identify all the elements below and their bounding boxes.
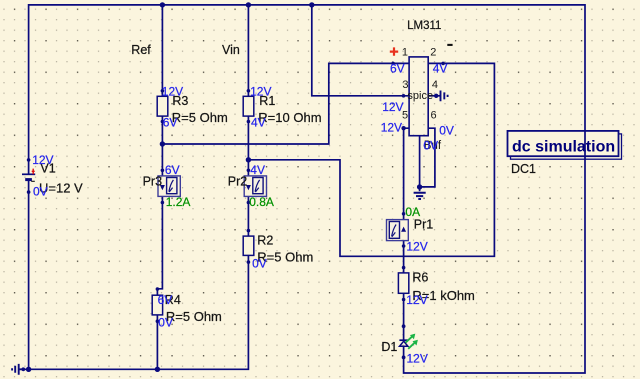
wire V1 minus down	[28, 180, 30, 369]
svg-text:0V: 0V	[33, 185, 48, 199]
svg-text:1: 1	[402, 47, 408, 59]
svg-text:R6: R6	[412, 270, 428, 284]
wire R6 to D1	[403, 293, 405, 340]
svg-text:6V: 6V	[165, 163, 180, 177]
junction node 6V wire A	[160, 141, 165, 146]
wire R1 top	[247, 5, 249, 96]
svg-text:12V: 12V	[382, 100, 403, 114]
svg-text:4V: 4V	[251, 115, 266, 129]
ground bottom left	[12, 364, 23, 375]
svg-text:1.2A: 1.2A	[166, 195, 191, 209]
svg-text:0V: 0V	[158, 316, 173, 330]
wire LM311 pin 5 down to Pr1	[404, 128, 410, 219]
terminal dots Pr2	[247, 169, 251, 173]
svg-text:D1: D1	[381, 340, 397, 354]
terminal dot pin3 wire	[402, 94, 406, 98]
svg-text:12V: 12V	[162, 85, 183, 99]
svg-text:12V: 12V	[406, 293, 427, 307]
diode D1 (LED)	[381, 334, 418, 354]
svg-text:6: 6	[431, 110, 437, 122]
wire 12V rail to LM311 pin 3	[312, 5, 409, 96]
dc simulation DC1	[508, 131, 622, 176]
spice component U1 LM311	[402, 20, 442, 136]
svg-text:6V: 6V	[158, 293, 173, 307]
svg-text:4: 4	[432, 79, 438, 91]
svg-text:0V: 0V	[439, 123, 454, 137]
svg-text:R=5 Ohm: R=5 Ohm	[166, 309, 222, 324]
plus marker at pin 1	[390, 47, 398, 55]
svg-text:Vin: Vin	[222, 43, 240, 57]
terminal dot pin2 wire	[441, 62, 445, 66]
junction LM311 ground node	[417, 184, 422, 189]
junction top rail x=248	[246, 2, 251, 7]
terminal dots D1	[402, 324, 406, 328]
terminal dots Pr1	[402, 212, 406, 216]
svg-text:Pr3: Pr3	[143, 174, 163, 188]
svg-text:12V: 12V	[406, 239, 427, 253]
terminal dots Pr3	[161, 169, 165, 173]
minus marker at pin 2	[447, 44, 452, 46]
resistor R3	[157, 94, 228, 125]
terminal dot pin1 wire	[391, 62, 395, 66]
wire LM311 pin 6 to ground	[420, 128, 435, 187]
wire Pr3 to R4 jog	[157, 196, 162, 295]
svg-text:4V: 4V	[433, 62, 448, 76]
svg-text:dc simulation: dc simulation	[512, 139, 615, 156]
svg-text:0A: 0A	[405, 205, 420, 219]
junction top rail x=312	[309, 2, 314, 7]
svg-text:4V: 4V	[250, 163, 265, 177]
ground at LM311 pin 4 (pointing right)	[441, 91, 448, 102]
terminal dots R3	[161, 89, 165, 93]
svg-text:0V: 0V	[252, 257, 267, 271]
wire bottom ground rail	[23, 262, 248, 369]
svg-text:R=5 Ohm: R=5 Ohm	[172, 110, 228, 125]
terminal dot ground left end	[21, 367, 25, 371]
svg-text:spice: spice	[407, 90, 433, 102]
svg-text:Pr1: Pr1	[414, 217, 434, 231]
svg-text:3: 3	[402, 79, 408, 91]
svg-text:12V: 12V	[407, 351, 428, 365]
svg-text:12V: 12V	[32, 153, 53, 167]
svg-text:2: 2	[430, 47, 436, 59]
terminal dots R1	[247, 89, 251, 93]
wire LM311 bottom stub to ground	[419, 136, 421, 192]
svg-text:DC1: DC1	[511, 162, 536, 176]
ground below LM311	[414, 193, 426, 199]
svg-text:12V: 12V	[250, 85, 271, 99]
wire R3 bottom to Pr3	[161, 116, 163, 176]
svg-text:6V: 6V	[163, 115, 178, 129]
wire LM311 pin 4 to ground	[428, 95, 440, 97]
svg-text:Ref: Ref	[131, 43, 151, 57]
svg-text:R=10 Ohm: R=10 Ohm	[258, 110, 321, 125]
junction top rail x=162	[160, 2, 165, 7]
wire net 4V to LM311 pin 2	[248, 63, 494, 256]
wire Pr1 to R6 crossing 4V wire	[403, 241, 405, 273]
wire R4 chain to ground rail	[156, 315, 158, 369]
wire net 6V to LM311 pin 1	[162, 63, 409, 144]
svg-text:0.8A: 0.8A	[249, 195, 274, 209]
junction pin4 ground	[434, 94, 438, 98]
ammeter Pr3	[143, 174, 181, 196]
wire Pr2 to R2	[247, 197, 249, 236]
svg-text:LM311: LM311	[407, 20, 441, 32]
wire D1 to bottom right	[403, 346, 405, 357]
resistor R1	[243, 94, 321, 125]
svg-text:0V: 0V	[423, 138, 438, 152]
junction node 4V wire B	[246, 157, 251, 162]
resistor R2	[243, 233, 313, 264]
svg-text:Pr2: Pr2	[228, 174, 248, 188]
ammeter Pr1	[387, 217, 434, 240]
resistor R4	[152, 293, 222, 324]
svg-text:R2: R2	[257, 233, 273, 247]
wire R1 bottom to Pr2	[247, 116, 249, 176]
svg-text:6V: 6V	[390, 62, 405, 76]
junction bottom rail R4	[155, 367, 160, 372]
voltage source V1	[22, 158, 83, 195]
junction LM311 pin5	[401, 126, 405, 130]
resistor R6	[398, 270, 475, 303]
terminal dots R4	[156, 287, 160, 291]
terminal dots R6	[402, 266, 406, 270]
svg-text:12V: 12V	[381, 120, 402, 134]
ammeter Pr2	[228, 174, 267, 196]
wire R3 top	[161, 5, 163, 96]
junction bottom rail V1	[26, 367, 31, 372]
wire R2 bottom	[247, 255, 249, 262]
terminal dots R2	[247, 229, 251, 233]
